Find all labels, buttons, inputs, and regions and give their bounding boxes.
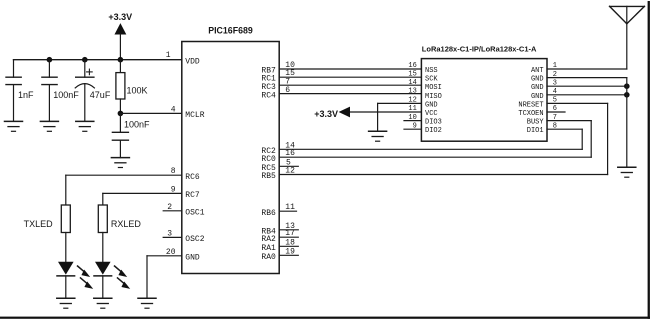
svg-text:4: 4 xyxy=(171,105,176,114)
wire MCLR xyxy=(120,112,181,114)
pin 9 DIO2 stub xyxy=(404,122,442,135)
op-amp U1 PIC16F689 box xyxy=(182,42,279,274)
pin 3 OSC2 xyxy=(163,229,205,244)
bottom border xyxy=(0,317,650,319)
svg-text:1nF: 1nF xyxy=(18,90,34,100)
svg-text:LoRa128x-C1-IP/LoRa128x-C1-A: LoRa128x-C1-IP/LoRa128x-C1-A xyxy=(422,44,537,53)
svg-text:1: 1 xyxy=(166,51,171,60)
pin 19 RA0 stub xyxy=(261,247,298,262)
pin 16 NSS xyxy=(408,62,437,75)
antenna xyxy=(610,6,645,23)
ground U2 GND12 xyxy=(369,131,387,141)
svg-text:GND: GND xyxy=(531,84,544,92)
resistor R2 TXLED xyxy=(24,175,71,262)
svg-text:PIC16F689: PIC16F689 xyxy=(208,26,253,36)
svg-text:TCXOEN: TCXOEN xyxy=(518,110,543,118)
pin 9 RC7 xyxy=(103,185,200,200)
pin 13 RB4 stub xyxy=(261,222,298,237)
svg-text:NRESET: NRESET xyxy=(518,101,543,109)
pin 10 DIO3 stub xyxy=(404,114,442,127)
ground U1 GND xyxy=(138,298,156,308)
ground C1 xyxy=(5,121,23,131)
svg-text:+3.3V: +3.3V xyxy=(108,12,132,22)
pin 1 ANT wire xyxy=(531,6,627,75)
capacitor C2 100nF xyxy=(42,60,79,122)
svg-text:100K: 100K xyxy=(127,85,148,95)
ground right xyxy=(618,167,636,177)
ground C4 xyxy=(111,158,129,168)
svg-text:MOSI: MOSI xyxy=(425,84,442,92)
wire GND net down xyxy=(626,78,628,168)
svg-text:NSS: NSS xyxy=(425,67,438,75)
node MCLR junction xyxy=(118,111,124,117)
svg-text:VDD: VDD xyxy=(185,57,200,66)
pin 6 RC4 xyxy=(261,86,421,101)
svg-text:DIO2: DIO2 xyxy=(425,127,442,135)
svg-text:15: 15 xyxy=(408,70,416,78)
svg-text:GND: GND xyxy=(425,101,438,109)
svg-text:14: 14 xyxy=(408,79,416,87)
svg-text:100nF: 100nF xyxy=(53,90,79,100)
pin 5 NRESET wire xyxy=(518,97,607,175)
wire +3.3V rail xyxy=(14,59,182,61)
pin 14 RC2 / wire to DIO1 xyxy=(261,141,582,156)
svg-text:+3.3V: +3.3V xyxy=(314,109,338,119)
svg-text:47uF: 47uF xyxy=(90,90,111,100)
pin 8 RC6 xyxy=(66,167,200,182)
svg-text:100nF: 100nF xyxy=(124,119,150,129)
pin 6 TCXOEN stub xyxy=(518,105,565,118)
wire supply to rail xyxy=(119,34,121,60)
svg-text:SCK: SCK xyxy=(425,76,438,84)
pin 1 VDD xyxy=(166,51,200,67)
svg-text:RB5: RB5 xyxy=(261,172,276,181)
pin 7 RC3 xyxy=(261,78,421,93)
resistor R1 100K xyxy=(116,60,148,114)
svg-text:RXLED: RXLED xyxy=(111,219,142,229)
resistor R3 RXLED xyxy=(98,193,141,261)
svg-text:GND: GND xyxy=(531,93,544,101)
svg-text:RA2: RA2 xyxy=(261,235,276,244)
svg-text:RC0: RC0 xyxy=(261,155,276,164)
pin 2 OSC1 xyxy=(163,203,205,218)
node junction GND4 xyxy=(624,92,630,98)
pin 8 DIO1 wire xyxy=(527,122,582,149)
svg-text:RC6: RC6 xyxy=(185,173,200,182)
pin 10 RB7 xyxy=(261,61,421,76)
+3.3V supply arrow xyxy=(115,24,125,34)
svg-text:ANT: ANT xyxy=(531,67,544,75)
svg-text:VCC: VCC xyxy=(425,110,438,118)
svg-text:RB6: RB6 xyxy=(261,209,276,218)
svg-text:RA0: RA0 xyxy=(261,253,276,262)
svg-text:OSC2: OSC2 xyxy=(185,235,204,244)
pin 11 RB6 stub xyxy=(261,203,296,218)
svg-text:GND: GND xyxy=(185,253,200,262)
svg-text:TXLED: TXLED xyxy=(24,219,54,229)
pin 17 RA2 stub xyxy=(261,229,298,244)
svg-text:RC7: RC7 xyxy=(185,191,200,200)
right border xyxy=(648,1,650,319)
diode D1 TXLED xyxy=(57,262,93,299)
ground C3 xyxy=(76,121,94,131)
pin 4 GND wire xyxy=(531,88,627,101)
pin 20 GND xyxy=(147,248,200,298)
svg-text:RA1: RA1 xyxy=(261,244,276,253)
svg-text:BUSY: BUSY xyxy=(527,119,545,127)
node junction R1 rail xyxy=(118,57,124,63)
pin 4 MCLR xyxy=(171,105,205,120)
pin 14 MOSI xyxy=(408,79,441,92)
node junction GND3 xyxy=(624,83,630,89)
capacitor C1 1nF xyxy=(6,60,34,122)
pin 15 RC1 xyxy=(261,69,421,84)
+3.3V arrow VCC xyxy=(340,107,350,116)
svg-text:DIO1: DIO1 xyxy=(527,127,544,135)
svg-text:RC4: RC4 xyxy=(261,92,276,101)
pin 2 GND wire xyxy=(531,71,627,84)
pin 3 GND wire xyxy=(531,79,627,92)
pin 5 RC5 stub xyxy=(261,158,298,173)
pin 7 BUSY wire xyxy=(527,114,591,157)
pin 11 VCC wire xyxy=(349,105,437,118)
capacitor C4 100nF MCLR xyxy=(112,113,150,157)
pin 18 RA1 stub xyxy=(261,238,298,253)
svg-text:OSC1: OSC1 xyxy=(185,208,204,217)
svg-text:13: 13 xyxy=(408,87,416,95)
diode D2 RXLED xyxy=(94,262,130,299)
ground C2 xyxy=(40,121,58,131)
ground D1 xyxy=(57,298,75,308)
pin 12 GND wire xyxy=(378,97,438,132)
svg-text:MISO: MISO xyxy=(425,93,442,101)
svg-text:MCLR: MCLR xyxy=(185,111,204,120)
op-amp U2 LoRa module box xyxy=(421,59,547,142)
node junction C2 rail xyxy=(47,57,53,63)
node junction C3 rail xyxy=(82,57,88,63)
svg-text:GND: GND xyxy=(531,76,544,84)
svg-text:DIO3: DIO3 xyxy=(425,119,442,127)
svg-text:16: 16 xyxy=(408,62,416,70)
pin 15 SCK xyxy=(408,70,438,83)
pin 12 RB5 / wire to NRESET xyxy=(261,167,607,182)
capacitor C3 47uF polarized xyxy=(75,60,111,122)
ground D2 xyxy=(94,298,112,308)
pin 13 MISO xyxy=(408,87,441,101)
pin 16 RC0 / wire to BUSY xyxy=(261,149,591,164)
